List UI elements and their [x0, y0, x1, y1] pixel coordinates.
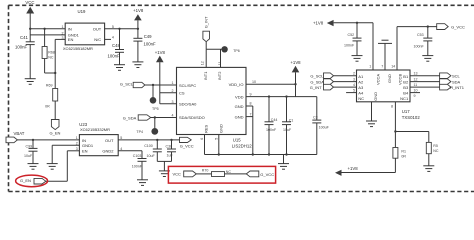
svg-text:NC: NC: [48, 55, 54, 59]
svg-text:+1V8: +1V8: [133, 8, 144, 13]
port R_INT1: [440, 84, 465, 90]
port SCL: [440, 73, 461, 79]
svg-text:SCL/SPC: SCL/SPC: [179, 83, 196, 88]
wire GND join down: [252, 106, 254, 155]
ground under C53: [422, 56, 433, 62]
svg-text:C3: C3: [313, 116, 318, 120]
wire VDD rail: [246, 96, 317, 98]
power VCC: [25, 0, 34, 29]
svg-text:U15: U15: [233, 137, 241, 142]
ground under C52: [352, 56, 363, 62]
ground under C48: [114, 65, 125, 71]
svg-text:100nF: 100nF: [144, 42, 157, 47]
wire VCC to R70: [196, 173, 211, 175]
ground under C49: [132, 62, 143, 68]
wire SDA: [151, 117, 177, 119]
svg-text:100nF: 100nF: [108, 54, 121, 59]
power +1V8 at U19 out: [133, 8, 144, 29]
svg-text:GND: GND: [373, 92, 378, 101]
port G_VCC in red box: [246, 171, 274, 177]
svg-text:100nF: 100nF: [344, 43, 355, 47]
svg-text:+1V8: +1V8: [155, 50, 166, 55]
port G_SCL at U15: [120, 81, 145, 87]
capacitor C41: [15, 29, 35, 79]
svg-text:SCL: SCL: [452, 74, 461, 79]
svg-text:EN: EN: [68, 37, 74, 42]
wire INT1 up: [205, 49, 207, 67]
svg-text:A1: A1: [358, 74, 364, 79]
svg-text:TP6: TP6: [233, 49, 240, 53]
level shifter U17: [353, 65, 420, 120]
svg-text:A3: A3: [358, 85, 364, 90]
port G_EN circled: [20, 178, 46, 184]
svg-text:4: 4: [172, 114, 174, 118]
wire U19 OUT: [105, 28, 138, 30]
svg-text:100nF: 100nF: [132, 165, 143, 169]
svg-text:1uF: 1uF: [167, 154, 174, 158]
port G_INT at U17: [310, 84, 334, 90]
svg-text:C44: C44: [271, 118, 278, 122]
wire VCC rail: [30, 28, 65, 30]
border bottom dashed: [9, 191, 474, 193]
svg-text:SDO/SA0: SDO/SA0: [179, 102, 197, 107]
svg-text:C52: C52: [348, 33, 355, 37]
border left dashed: [8, 5, 10, 191]
svg-text:R70: R70: [202, 168, 209, 172]
accelerometer U15: [172, 61, 257, 148]
svg-text:G_SCL: G_SCL: [310, 73, 324, 78]
svg-text:VBAT: VBAT: [14, 131, 25, 136]
svg-text:+1V8: +1V8: [313, 20, 324, 25]
svg-text:VCCB: VCCB: [397, 74, 402, 85]
port G_VCC at U15: [180, 137, 194, 148]
svg-text:B3: B3: [403, 85, 409, 90]
svg-text:TP4: TP4: [136, 130, 143, 134]
capacitor C100: [144, 139, 162, 162]
wire VBAT to U23: [17, 139, 79, 141]
testpoint TP5: [150, 84, 159, 111]
svg-text:100nF: 100nF: [15, 45, 28, 50]
wire U23 EN to G_EN: [46, 151, 80, 181]
svg-text:INT1: INT1: [203, 71, 208, 80]
svg-text:1: 1: [62, 25, 64, 29]
border top dashed: [9, 4, 474, 6]
svg-text:TXS0102: TXS0102: [402, 115, 421, 120]
svg-text:B2: B2: [403, 80, 409, 85]
port G_INT vertical: [203, 16, 210, 49]
svg-text:R_INT1: R_INT1: [450, 85, 465, 90]
svg-text:EN: EN: [82, 149, 88, 154]
svg-text:N/C: N/C: [94, 37, 101, 42]
wire A3: [334, 86, 357, 88]
wire SCL: [145, 84, 177, 86]
capacitor C49: [133, 28, 156, 62]
svg-text:GND: GND: [235, 114, 244, 119]
svg-text:100uF: 100uF: [319, 126, 330, 130]
svg-text:B4: B4: [403, 91, 409, 96]
wire U23 GND2: [118, 150, 142, 152]
svg-text:10: 10: [414, 89, 418, 93]
ground under C100/C36: [159, 171, 170, 177]
svg-text:OUT: OUT: [105, 138, 114, 143]
svg-text:2: 2: [353, 72, 355, 76]
svg-text:1: 1: [172, 81, 174, 85]
svg-text:VDD_IO: VDD_IO: [229, 82, 244, 87]
svg-text:6: 6: [200, 138, 204, 140]
wire GND pin8: [246, 105, 253, 107]
wire U15 bottom pins: [205, 135, 219, 155]
svg-text:+1V8: +1V8: [348, 166, 359, 171]
svg-text:VCCA: VCCA: [375, 74, 380, 85]
resistor R5: [426, 132, 439, 166]
svg-text:100nF: 100nF: [414, 44, 425, 48]
svg-text:GND: GND: [218, 124, 223, 133]
svg-text:G_EN: G_EN: [20, 178, 31, 183]
annotation red rectangle: [168, 166, 275, 183]
svg-text:C100: C100: [144, 144, 153, 148]
svg-text:LIS2DH12: LIS2DH12: [232, 143, 252, 148]
wire U19 EN: [55, 39, 65, 73]
wire A4 stub: [346, 92, 356, 94]
power +1V8 top right: [313, 20, 373, 70]
svg-text:R5: R5: [433, 144, 438, 148]
ground main rail: [278, 155, 289, 170]
svg-text:R69: R69: [46, 83, 53, 87]
svg-text:5: 5: [353, 89, 355, 93]
capacitor C44: [265, 95, 278, 154]
svg-text:100nF: 100nF: [266, 128, 277, 132]
svg-text:C49: C49: [144, 34, 152, 39]
svg-text:C1: C1: [289, 119, 294, 123]
svg-text:8: 8: [250, 102, 252, 106]
resistor R69: [45, 73, 58, 120]
svg-text:3: 3: [353, 78, 355, 82]
svg-text:SDA/SDI/SDO: SDA/SDI/SDO: [179, 115, 205, 120]
svg-text:GND: GND: [387, 74, 392, 83]
power +1V8 at VDD: [290, 60, 301, 97]
svg-text:1: 1: [369, 65, 371, 69]
capacitor C48: [108, 28, 125, 65]
svg-text:8: 8: [391, 104, 393, 108]
svg-text:RES: RES: [204, 124, 209, 133]
svg-text:9: 9: [414, 94, 416, 98]
svg-text:7: 7: [250, 112, 252, 116]
resistor R68: [42, 29, 56, 74]
port G_SCL at U17: [310, 73, 333, 79]
resistor R1: [393, 148, 406, 173]
wire A2: [334, 81, 357, 83]
capacitor C1: [282, 95, 293, 154]
svg-text:VCC: VCC: [173, 171, 182, 176]
ground under C99: [28, 164, 39, 170]
ground flipped at U17 GND top: [378, 40, 392, 70]
ground under C41: [25, 79, 36, 85]
svg-text:IN: IN: [82, 138, 86, 143]
svg-text:G_SDA: G_SDA: [310, 79, 324, 84]
svg-text:G_SDA: G_SDA: [123, 115, 137, 120]
port VCC in red box: [173, 171, 197, 177]
capacitor C36: [166, 139, 177, 162]
svg-text:11: 11: [414, 83, 418, 87]
capacitor C99: [24, 139, 38, 164]
port VBAT: [6, 131, 25, 143]
wire U19 GND1: [30, 34, 65, 36]
capacitor C3: [312, 97, 329, 155]
svg-text:C103: C103: [133, 154, 142, 158]
svg-text:NC1: NC1: [400, 96, 409, 101]
wire U23 OUT: [118, 139, 179, 141]
svg-text:9: 9: [250, 92, 252, 96]
svg-text:C99: C99: [26, 144, 33, 148]
svg-text:CS: CS: [179, 91, 185, 96]
svg-text:10uF: 10uF: [147, 154, 156, 158]
ground under GND1: [47, 164, 58, 170]
capacitor C103: [132, 151, 147, 180]
wire B1: [410, 75, 440, 77]
wire SDO stub: [160, 103, 177, 105]
capacitor C52: [344, 22, 362, 56]
svg-text:+1V8: +1V8: [290, 60, 301, 65]
svg-text:G_INT: G_INT: [204, 16, 209, 28]
wire caps join: [157, 161, 171, 171]
svg-text:3: 3: [172, 100, 174, 104]
capacitor C53: [414, 25, 433, 55]
svg-text:C41: C41: [20, 35, 28, 40]
wire ground rail: [205, 154, 317, 156]
svg-text:1: 1: [76, 136, 78, 140]
power +1V8 pullup CS/SDO: [155, 50, 166, 104]
wire R70 to G_VCC: [225, 173, 247, 175]
svg-text:7: 7: [381, 65, 383, 69]
ground U17 bottom: [366, 102, 377, 127]
svg-text:G_VCC: G_VCC: [180, 144, 194, 149]
svg-text:R68: R68: [48, 51, 55, 55]
svg-text:GND: GND: [235, 104, 244, 109]
svg-text:SDA: SDA: [452, 80, 461, 85]
svg-text:OUT: OUT: [93, 27, 102, 32]
svg-text:GND1: GND1: [82, 143, 94, 148]
ground under C103: [137, 180, 148, 186]
regulator U23: [76, 122, 122, 156]
power +1V8 bottom: [335, 166, 395, 176]
svg-text:14: 14: [391, 65, 395, 69]
svg-text:4: 4: [112, 36, 114, 40]
svg-text:A2: A2: [358, 80, 364, 85]
wire B3: [410, 86, 440, 88]
svg-text:R1: R1: [401, 149, 406, 153]
testpoint TP6: [221, 46, 239, 53]
svg-text:0R: 0R: [401, 154, 406, 158]
svg-text:2: 2: [172, 89, 174, 93]
ground under R5: [423, 166, 434, 172]
svg-text:12: 12: [201, 61, 205, 65]
svg-text:INT2: INT2: [217, 71, 222, 80]
wire A1: [334, 75, 357, 77]
annotation red ellipse: [16, 175, 48, 187]
svg-text:G_VCC: G_VCC: [451, 25, 465, 30]
svg-text:13: 13: [414, 72, 418, 76]
svg-text:A4: A4: [358, 91, 364, 96]
wire B2: [410, 81, 440, 83]
svg-text:G_EN: G_EN: [50, 130, 61, 135]
wire CS stub: [160, 92, 177, 94]
wire U19 N/C stub: [105, 38, 111, 40]
port G_SDA at U17: [310, 79, 333, 85]
svg-text:B1: B1: [403, 74, 409, 79]
svg-text:NC: NC: [358, 96, 364, 101]
svg-text:U17: U17: [402, 109, 410, 114]
svg-text:G_INT: G_INT: [310, 85, 322, 90]
port G_SDA at U15: [123, 115, 151, 121]
svg-text:NC: NC: [433, 149, 439, 153]
svg-text:U19: U19: [78, 9, 86, 14]
svg-text:C53: C53: [417, 33, 424, 37]
svg-text:G_SCL: G_SCL: [120, 81, 134, 86]
wire INT join: [206, 48, 224, 50]
svg-text:0R: 0R: [45, 105, 50, 109]
svg-text:VCC: VCC: [25, 0, 34, 5]
port G_EN vertical: [50, 120, 61, 136]
svg-text:IN: IN: [68, 27, 72, 32]
svg-text:GND2: GND2: [102, 149, 114, 154]
port G_VCC top right: [437, 24, 465, 30]
svg-text:G_VCC: G_VCC: [260, 172, 274, 177]
svg-text:12: 12: [414, 78, 418, 82]
port SDA: [440, 79, 461, 85]
wire U17 OE pin down: [395, 102, 428, 148]
wire VDD_IO: [246, 83, 296, 85]
svg-text:TP5: TP5: [152, 107, 159, 111]
svg-text:C36: C36: [166, 145, 173, 149]
wire G_VCC to VCCB: [397, 27, 437, 70]
wire GND pin7: [246, 116, 253, 118]
wire B4 stub: [410, 92, 420, 94]
wire INT2 up: [220, 49, 222, 67]
svg-text:4: 4: [353, 83, 355, 87]
svg-text:10: 10: [252, 80, 256, 84]
svg-text:XC6215B182MR: XC6215B182MR: [63, 46, 93, 51]
resistor R70: [202, 168, 232, 176]
op IC U19 regulator: [62, 9, 114, 51]
svg-text:10uF: 10uF: [283, 128, 292, 132]
svg-text:5: 5: [214, 138, 218, 140]
svg-text:XC6215B332MR: XC6215B332MR: [80, 127, 110, 132]
wire U23 GND1: [52, 145, 79, 163]
svg-text:10uF: 10uF: [24, 154, 33, 158]
svg-text:VDD: VDD: [235, 94, 244, 99]
testpoint TP4: [136, 116, 158, 134]
svg-text:C48: C48: [112, 43, 120, 48]
